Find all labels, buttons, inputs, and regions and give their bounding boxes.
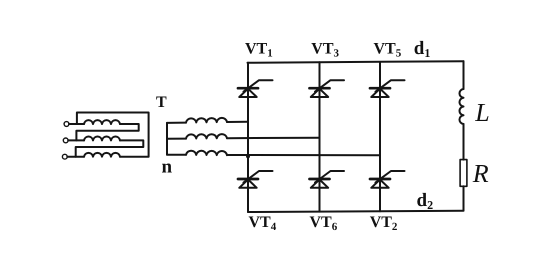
svg-text:VT6: VT6 — [310, 214, 338, 233]
transformer T secondary winding S2 (coil) — [186, 134, 227, 139]
svg-text:d2: d2 — [417, 190, 434, 212]
wire: bottom DC rail (node d2) — [248, 211, 464, 212]
svg-text:T: T — [156, 94, 167, 111]
wire: secondary phase-c to bridge leg 3 (crosses legs 1,2) — [227, 154, 380, 156]
wire: bridge leg 3 — [379, 62, 381, 211]
wire: delta link winding P2 end to phase-C junction — [76, 140, 144, 156]
thyristor VT2 — [370, 171, 405, 188]
wire: secondary phase-a to bridge leg 1 — [227, 121, 248, 123]
transformer T primary phase-A input terminal — [64, 122, 69, 127]
transformer T secondary winding S3 (coil) — [186, 151, 227, 156]
thyristor VT6 — [310, 171, 345, 188]
transformer T primary phase-B input terminal — [63, 138, 68, 143]
wire: resistor to d2 rail — [463, 186, 465, 210]
transformer T primary winding P1 (coil) — [84, 120, 120, 124]
svg-text:VT1: VT1 — [245, 41, 273, 60]
thyristor VT4 — [238, 171, 273, 188]
svg-text:VT3: VT3 — [311, 41, 339, 60]
svg-text:d1: d1 — [414, 38, 431, 60]
wire: secondary phase-b to bridge leg 2 (crosses leg 1) — [227, 137, 320, 140]
inductor L (smoothing reactor) — [459, 89, 463, 124]
svg-text:n: n — [162, 156, 173, 177]
svg-text:L: L — [474, 98, 489, 127]
wire: bridge leg 1 — [247, 63, 249, 212]
wire: bridge leg 2 — [319, 62, 321, 211]
svg-text:VT4: VT4 — [249, 214, 277, 233]
thyristor VT5 — [370, 80, 405, 97]
thyristor VT3 — [310, 80, 345, 97]
wire: secondary phase-b from star point to coil — [167, 138, 186, 140]
transformer T primary phase-C input terminal — [62, 154, 67, 159]
wire: load branch from d1 to inductor — [463, 61, 465, 89]
wire: delta link winding P1 end to phase-B junction — [76, 124, 138, 140]
wire: secondary phase-c from star point to coil — [167, 154, 186, 156]
wire: delta link phase-A junction over top to winding P3 end — [77, 113, 149, 157]
svg-text:VT2: VT2 — [370, 214, 398, 233]
svg-text:R: R — [472, 159, 489, 188]
transformer secondary star-point rail (node n) — [166, 123, 168, 155]
wire: phase-A lead to winding junction — [69, 123, 84, 125]
wire: top DC rail (node d1) — [248, 61, 464, 63]
transformer T primary winding P3 (coil) — [84, 153, 120, 157]
junction: phase-c crossing blot on leg 1 — [246, 154, 250, 158]
wire: phase-B lead to winding junction — [68, 139, 84, 141]
wire: secondary phase-a from star point to coil — [167, 122, 186, 124]
thyristor VT1 — [238, 80, 273, 97]
wire: phase-C lead to winding junction — [67, 156, 84, 158]
transformer T primary winding P2 (coil) — [84, 137, 120, 141]
svg-text:VT5: VT5 — [374, 41, 402, 60]
transformer T secondary winding S1 (coil) — [186, 118, 227, 123]
resistor R (load) — [460, 160, 467, 187]
wire: inductor to resistor — [463, 124, 465, 160]
